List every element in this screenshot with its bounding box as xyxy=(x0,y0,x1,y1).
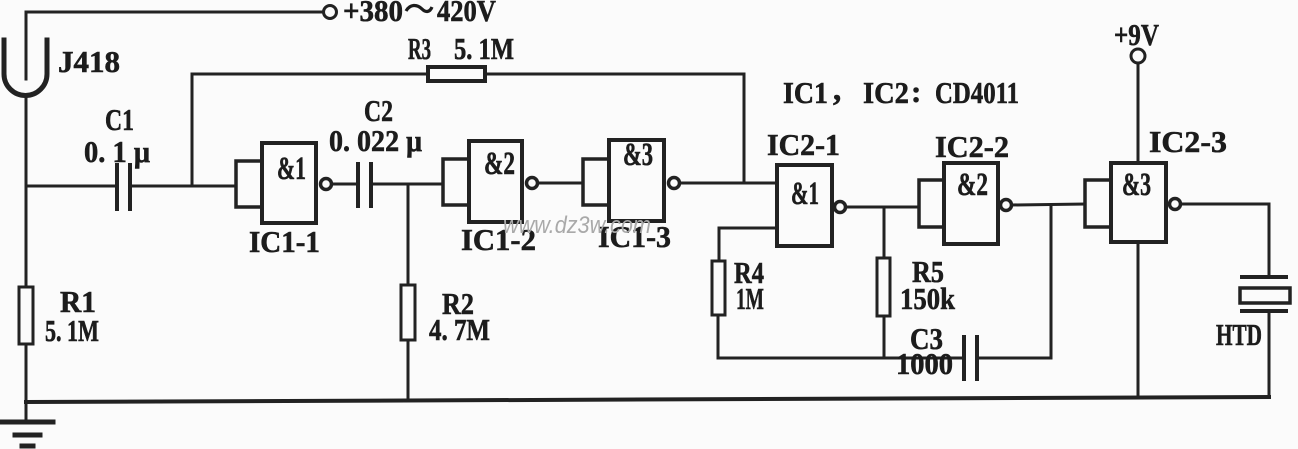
svg-text:IC2-3: IC2-3 xyxy=(1149,124,1227,158)
wire C1 left xyxy=(26,185,115,188)
wire C1 to IC1-1 input xyxy=(132,185,236,188)
gate IC2-3 input box xyxy=(1085,180,1111,227)
svg-text:&1: &1 xyxy=(791,174,819,211)
svg-text:4. 7M: 4. 7M xyxy=(429,314,490,348)
wire R5 to node xyxy=(883,316,886,358)
gate IC2-3 output bubble xyxy=(1170,199,1181,210)
svg-text:&3: &3 xyxy=(1122,167,1151,204)
wire HTD to ground rail xyxy=(1268,313,1271,396)
svg-text:J418: J418 xyxy=(58,44,120,79)
wire bottom ground rail xyxy=(26,397,1269,402)
gate IC2-1 body xyxy=(777,165,832,246)
resistor R3 body xyxy=(428,67,485,81)
gate IC2-3 body xyxy=(1111,163,1166,242)
resistor R1 body xyxy=(19,287,33,344)
svg-text:IC2: IC2 xyxy=(863,76,909,110)
wire IC1-3 out to IC2-1 xyxy=(680,182,777,185)
wire IC2-2 out to IC2-3 xyxy=(1012,204,1085,205)
wire +9V to IC2-3 top xyxy=(1137,63,1140,163)
resistor R5 body xyxy=(877,258,890,316)
svg-text:&1: &1 xyxy=(277,151,306,188)
gate IC1-3 input box xyxy=(583,159,609,205)
gate IC1-2 body xyxy=(469,141,522,222)
ground symbol xyxy=(2,420,53,425)
svg-text:0. 022 μ: 0. 022 μ xyxy=(329,125,422,159)
probe J418 inner electrode wire xyxy=(25,12,28,79)
wire R4 to node xyxy=(717,315,720,358)
buzzer HTD bottom plate xyxy=(1242,309,1286,313)
svg-text:,: , xyxy=(833,72,841,108)
svg-text:IC2-2: IC2-2 xyxy=(935,130,1009,164)
wire left vertical from probe to R1 xyxy=(25,96,28,287)
wire IC2-3 out to HTD xyxy=(1181,204,1269,275)
wire R3 right to IC2-1 input xyxy=(485,74,744,183)
svg-text::: : xyxy=(911,74,921,109)
gate IC1-1 input box xyxy=(236,161,262,207)
wire IC2-3 bottom to ground rail xyxy=(1137,242,1140,397)
gate IC2-2 output bubble xyxy=(1001,200,1012,211)
wire node R4 R5 to C3 xyxy=(718,357,962,360)
buzzer HTD top plate xyxy=(1242,275,1286,279)
svg-text:IC1: IC1 xyxy=(783,77,828,111)
probe J418 cup xyxy=(4,40,47,95)
capacitor C3 plates xyxy=(962,337,966,379)
gate IC1-3 output bubble xyxy=(669,178,680,189)
wire R3 left xyxy=(192,73,428,76)
svg-text:IC2-1: IC2-1 xyxy=(767,127,840,162)
wire IC2-1 second input to R4 xyxy=(719,228,777,261)
resistor R4 body xyxy=(712,261,725,315)
svg-text:5. 1M: 5. 1M xyxy=(45,313,99,348)
wire feedback vertical left xyxy=(191,74,194,186)
svg-text:1M: 1M xyxy=(736,281,764,316)
wire top supply rail xyxy=(26,11,322,14)
wire R1 to ground rail xyxy=(25,344,28,422)
wire R2 to ground rail xyxy=(407,340,410,400)
label +380~420V tilde xyxy=(406,5,432,11)
gate IC2-1 output bubble xyxy=(835,202,846,213)
wire IC1-2 out to IC1-3 xyxy=(538,182,583,185)
terminal +9V circle xyxy=(1131,49,1145,63)
gate IC1-3 body xyxy=(609,140,664,221)
resistor R2 body xyxy=(401,285,415,340)
svg-text:+9V: +9V xyxy=(1114,19,1160,53)
gate IC1-1 body xyxy=(262,143,316,223)
svg-text:0. 1 μ: 0. 1 μ xyxy=(84,135,150,169)
svg-text:C1: C1 xyxy=(105,102,134,137)
wire C2 to IC1-2 input xyxy=(373,183,443,186)
capacitor C1 plates xyxy=(115,165,119,209)
svg-text:420V: 420V xyxy=(437,0,496,29)
svg-text:&2: &2 xyxy=(957,167,988,203)
terminal +380V circle xyxy=(324,6,337,19)
svg-text:CD4011: CD4011 xyxy=(935,76,1019,110)
svg-text:150k: 150k xyxy=(900,282,956,316)
wire IC2-1 out to IC2-2 xyxy=(846,206,919,209)
wire IC1-1 out to C2 xyxy=(332,183,356,186)
svg-text:&3: &3 xyxy=(623,137,653,173)
wire junction down to R5 xyxy=(883,207,886,258)
svg-text:IC1-1: IC1-1 xyxy=(249,225,320,259)
gate IC1-1 output bubble xyxy=(321,179,332,190)
gate IC1-2 output bubble xyxy=(527,178,538,189)
gate IC2-2 body xyxy=(944,163,998,244)
svg-text:HTD: HTD xyxy=(1216,317,1262,352)
buzzer HTD body xyxy=(1240,288,1290,303)
gate IC1-2 input box xyxy=(443,159,469,205)
wire junction down to R2 xyxy=(407,184,410,285)
capacitor C2 plates xyxy=(356,164,360,206)
svg-text:+380: +380 xyxy=(343,0,403,28)
gate IC2-2 input box xyxy=(919,180,944,227)
wire C3 right up to IC2-2 output net xyxy=(979,205,1051,358)
svg-text:R3: R3 xyxy=(408,31,431,66)
svg-text:1000: 1000 xyxy=(896,347,953,381)
svg-text:&2: &2 xyxy=(484,146,515,182)
svg-text:www.dz3w.com: www.dz3w.com xyxy=(503,211,651,238)
svg-text:C2: C2 xyxy=(364,93,393,128)
svg-text:5. 1M: 5. 1M xyxy=(454,32,514,66)
